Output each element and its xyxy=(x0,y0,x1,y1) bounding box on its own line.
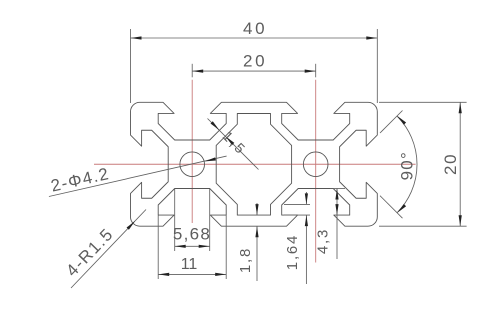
centerline vertical left xyxy=(191,80,193,223)
centerline horizontal xyxy=(94,163,416,165)
dim 5,68 xyxy=(173,189,211,251)
profile outline xyxy=(131,102,378,226)
svg-text:20: 20 xyxy=(441,153,460,175)
dim 90 deg xyxy=(380,111,417,219)
svg-text:1,8: 1,8 xyxy=(237,247,254,273)
central cavity xyxy=(216,114,291,216)
svg-text:90°: 90° xyxy=(398,151,417,180)
dim 20 top xyxy=(192,52,316,78)
svg-text:11: 11 xyxy=(181,256,198,273)
dim 11 xyxy=(158,216,226,280)
dim 1,5 xyxy=(208,119,259,170)
dim 4,3 xyxy=(315,189,346,260)
centerline vertical right xyxy=(315,80,317,263)
dim 1,8 xyxy=(237,203,259,281)
svg-text:40: 40 xyxy=(243,19,267,38)
svg-text:4,3: 4,3 xyxy=(315,228,332,254)
bore left xyxy=(180,152,205,177)
svg-text:5,68: 5,68 xyxy=(173,225,211,244)
svg-text:20: 20 xyxy=(243,52,267,71)
label 2-dia4.2 leader xyxy=(49,156,227,196)
svg-text:1,64: 1,64 xyxy=(284,234,301,270)
dim 1,64 xyxy=(284,192,310,284)
label 4-R1.5 leader xyxy=(62,210,146,289)
dim 40 xyxy=(131,19,378,103)
dim 20 right xyxy=(379,102,467,226)
bore right xyxy=(303,152,328,177)
